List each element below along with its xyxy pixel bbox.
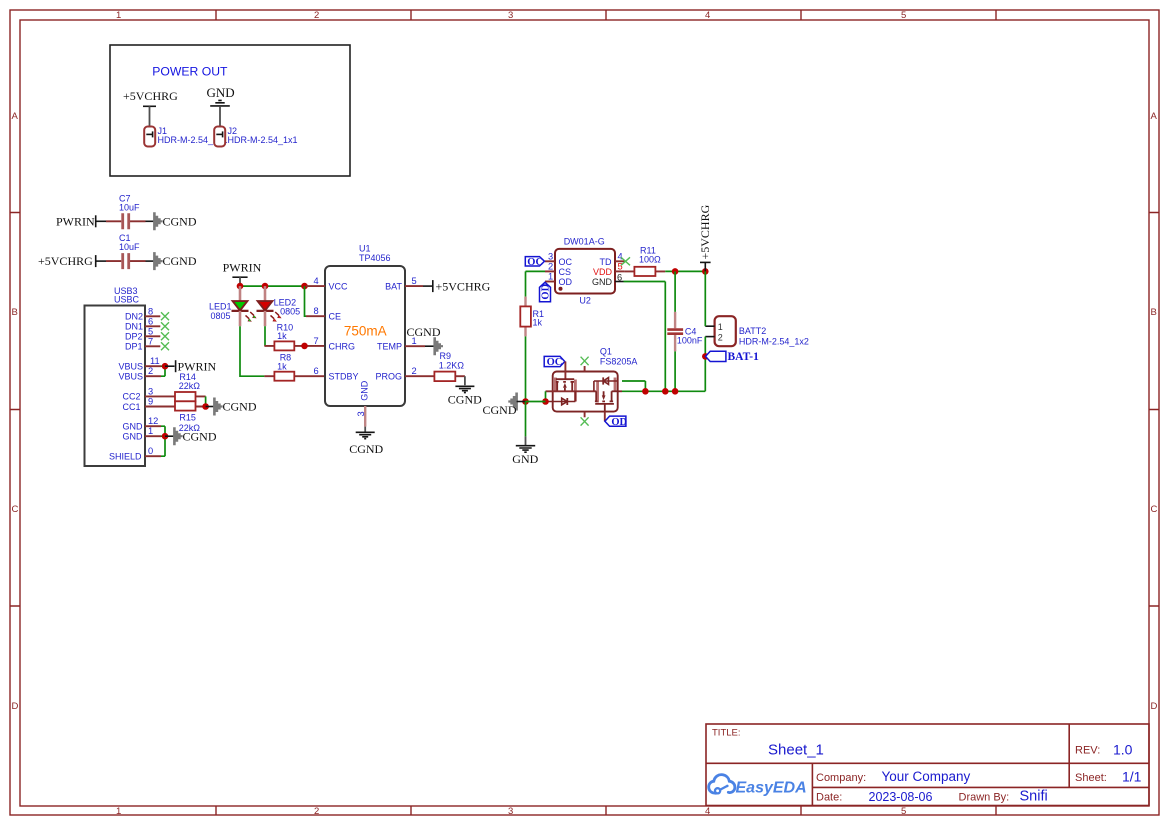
svg-text:0: 0 <box>148 446 153 456</box>
svg-text:USBC: USBC <box>114 295 140 305</box>
svg-text:1: 1 <box>116 806 121 817</box>
capacitor C4 100nF <box>667 271 703 391</box>
svg-text:6: 6 <box>617 272 622 282</box>
pin VBUS (11) <box>119 356 162 371</box>
transistor Q1 FS8205A <box>553 347 638 412</box>
svg-text:C: C <box>1151 504 1158 515</box>
svg-text:3: 3 <box>508 10 513 21</box>
svg-text:R15: R15 <box>179 412 196 422</box>
connector USB3 USBC <box>85 286 146 466</box>
pin CE (8) <box>306 306 325 316</box>
power flag +5VCHRG (BAT) <box>433 280 491 294</box>
pin VDD (5) <box>615 262 624 272</box>
svg-text:EasyEDA: EasyEDA <box>736 780 807 797</box>
wire CE branch <box>305 286 307 316</box>
junction <box>672 388 679 395</box>
ground flag CGND (C7) <box>154 212 196 230</box>
wire <box>146 260 155 262</box>
svg-text:REV:: REV: <box>1075 745 1100 757</box>
Q1 right MOSFET arrow <box>602 395 606 400</box>
svg-text:BAT: BAT <box>385 281 402 291</box>
svg-text:A: A <box>12 111 19 122</box>
svg-text:CGND: CGND <box>483 403 517 417</box>
no-connect X (DP1) <box>161 342 169 350</box>
svg-text:5: 5 <box>901 806 906 817</box>
svg-text:0805: 0805 <box>280 306 300 316</box>
pin top X (Q1) <box>584 366 586 372</box>
svg-text:OC: OC <box>527 257 543 268</box>
no-connect X (Q1 top) <box>581 357 589 366</box>
svg-text:100Ω: 100Ω <box>639 254 661 264</box>
capacitor C7 10uF <box>106 193 146 229</box>
svg-text:A: A <box>1151 111 1158 122</box>
LED LED2 0805 (red) <box>257 286 301 326</box>
svg-text:4: 4 <box>705 10 710 21</box>
svg-text:GND: GND <box>123 422 144 432</box>
ground flag CGND (C1) <box>154 252 196 270</box>
no-connect X (Q1 bottom) <box>581 417 589 425</box>
pin VBUS (2) <box>119 366 162 381</box>
svg-text:6: 6 <box>314 366 319 376</box>
svg-text:3: 3 <box>148 386 153 396</box>
pin DN2 (8) <box>125 306 160 321</box>
svg-text:Drawn By:: Drawn By: <box>959 792 1010 804</box>
resistor R9 1.2KΩ <box>434 351 465 381</box>
resistor R14 22kΩ <box>165 372 206 401</box>
svg-text:VDD: VDD <box>593 267 613 277</box>
junction <box>237 283 244 290</box>
wire <box>161 366 165 376</box>
power flag +5VCHRG (C1 row) <box>38 254 96 268</box>
svg-text:C: C <box>12 504 19 515</box>
svg-text:CC2: CC2 <box>123 392 141 402</box>
svg-text:TP4056: TP4056 <box>359 253 391 263</box>
power flag PWRIN (above LED1) <box>223 261 262 286</box>
net flag BAT-1 <box>706 351 760 363</box>
Q1 right MOSFET internals <box>595 391 622 411</box>
svg-text:PROG: PROG <box>375 372 402 382</box>
ground earth CGND (U1) <box>349 432 383 456</box>
svg-text:1.2KΩ: 1.2KΩ <box>439 360 465 370</box>
pin DP1 (7) <box>125 336 160 351</box>
svg-text:CGND: CGND <box>349 442 383 456</box>
svg-text:750mA: 750mA <box>344 324 387 339</box>
ground earth CGND (R9) <box>448 386 482 406</box>
svg-text:U1: U1 <box>359 243 371 253</box>
pin OC (3) <box>545 251 555 261</box>
svg-text:5: 5 <box>148 326 153 336</box>
svg-text:2023-08-06: 2023-08-06 <box>869 790 933 804</box>
pin GND (12) <box>123 416 162 431</box>
pin CC1 (9) <box>123 397 166 412</box>
svg-text:8: 8 <box>148 306 153 316</box>
wire +5VCHRG down to BATT2 pin1 <box>704 271 706 326</box>
svg-text:5: 5 <box>901 10 906 21</box>
wire net +5VCHRG <box>665 270 705 272</box>
svg-text:D: D <box>12 701 19 712</box>
wire <box>425 345 434 347</box>
svg-text:GND: GND <box>123 432 144 442</box>
wire <box>165 435 174 437</box>
svg-text:DN2: DN2 <box>125 312 143 322</box>
pin GND (3) of U1 <box>356 406 366 427</box>
svg-text:9: 9 <box>148 397 153 407</box>
svg-text:TITLE:: TITLE: <box>712 728 741 739</box>
svg-text:FS8205A: FS8205A <box>600 357 638 367</box>
svg-text:+5VCHRG: +5VCHRG <box>436 280 491 294</box>
svg-text:2: 2 <box>718 332 723 342</box>
wire <box>161 426 165 456</box>
svg-text:D: D <box>1151 701 1158 712</box>
svg-text:DW01A-G: DW01A-G <box>564 237 605 247</box>
svg-text:1: 1 <box>116 10 121 21</box>
svg-text:OD: OD <box>611 417 627 428</box>
svg-text:5: 5 <box>618 262 623 272</box>
svg-text:4: 4 <box>618 251 623 261</box>
svg-text:VBUS: VBUS <box>119 372 144 382</box>
svg-text:Company:: Company: <box>816 772 866 784</box>
power flag PWRIN (VBUS) <box>176 359 217 373</box>
pin TEMP (1) <box>405 336 425 346</box>
connector J2 HDR-M-2.54_1x1 <box>214 126 297 147</box>
svg-text:1: 1 <box>148 426 153 436</box>
svg-text:Sheet:: Sheet: <box>1075 772 1107 784</box>
pin CHRG (7) <box>314 336 319 346</box>
svg-text:GND: GND <box>512 452 538 466</box>
title block <box>706 724 1149 806</box>
wire <box>205 396 207 406</box>
wire LED2 cathode to R10 <box>264 326 266 346</box>
svg-text:+5VCHRG: +5VCHRG <box>38 254 93 268</box>
POWER OUT group box <box>110 45 350 176</box>
wire <box>364 427 366 432</box>
junction <box>162 363 169 370</box>
svg-text:22kΩ: 22kΩ <box>179 381 201 391</box>
Q1 left body diode <box>545 391 576 405</box>
svg-text:1: 1 <box>718 322 723 332</box>
svg-text:CS: CS <box>559 267 572 277</box>
svg-text:1.0: 1.0 <box>1113 742 1133 758</box>
wire <box>96 260 106 262</box>
pin DN1 (6) <box>125 316 160 331</box>
svg-text:1k: 1k <box>277 361 287 371</box>
junction <box>522 398 529 405</box>
svg-text:7: 7 <box>314 336 319 346</box>
Q1 internal wire rail <box>546 390 597 392</box>
svg-text:VBUS: VBUS <box>119 362 144 372</box>
svg-text:+5VCHRG: +5VCHRG <box>698 204 712 259</box>
svg-text:5: 5 <box>412 276 417 286</box>
svg-text:CGND: CGND <box>407 325 441 339</box>
connector BATT2 HDR-M-2.54_1x2 <box>715 316 809 346</box>
wire <box>96 220 106 222</box>
svg-text:OD: OD <box>541 283 552 299</box>
junction <box>301 343 308 350</box>
svg-text:4: 4 <box>705 806 710 817</box>
pin PROG (2) <box>405 366 434 376</box>
op-amp U1 TP4056 <box>325 243 405 406</box>
svg-text:3: 3 <box>548 251 553 261</box>
ground flag CGND (Q1) <box>483 393 526 417</box>
svg-text:GND: GND <box>207 85 235 100</box>
svg-text:VCC: VCC <box>329 281 349 291</box>
svg-text:TEMP: TEMP <box>377 342 402 352</box>
svg-text:BAT-1: BAT-1 <box>728 351 760 363</box>
svg-text:PWRIN: PWRIN <box>56 214 95 228</box>
LED LED1 0805 (green) <box>209 286 257 326</box>
pin GND (1) <box>123 426 162 441</box>
pin BAT (5) <box>405 276 423 286</box>
wire <box>525 336 527 401</box>
power flag PWRIN (C7 row) <box>56 214 96 228</box>
resistor R11 100Ω <box>624 246 665 276</box>
svg-text:CGND: CGND <box>163 254 197 268</box>
svg-text:CC1: CC1 <box>123 402 141 412</box>
svg-text:+5VCHRG: +5VCHRG <box>123 89 178 103</box>
svg-text:CGND: CGND <box>163 214 197 228</box>
wire <box>206 406 214 408</box>
svg-text:GND: GND <box>592 277 613 287</box>
junction <box>662 388 669 395</box>
pin VCC (4) <box>306 276 325 286</box>
junction <box>301 283 308 290</box>
svg-text:Date:: Date: <box>816 792 842 804</box>
svg-text:Snifi: Snifi <box>1020 789 1048 805</box>
svg-text:1: 1 <box>548 272 553 282</box>
svg-text:R9: R9 <box>440 351 452 361</box>
svg-text:1k: 1k <box>277 331 287 341</box>
no-connect X (DP2) <box>161 332 169 340</box>
svg-text:SHIELD: SHIELD <box>109 452 142 462</box>
wire CS net <box>526 271 546 296</box>
junction <box>162 433 169 440</box>
capacitor C1 10uF <box>106 233 146 269</box>
pin SHIELD (0) <box>109 446 161 461</box>
wire net PWRIN to VCC <box>240 285 306 287</box>
ground GND (J2) <box>207 85 235 126</box>
svg-text:2: 2 <box>412 366 417 376</box>
wire LED1 cathode to R8 <box>240 326 264 376</box>
junction <box>262 283 269 290</box>
wire to GND earth <box>525 402 527 437</box>
svg-text:10uF: 10uF <box>119 242 140 252</box>
svg-text:2: 2 <box>148 366 153 376</box>
svg-text:CGND: CGND <box>223 400 257 414</box>
svg-text:1k: 1k <box>533 318 543 328</box>
net flag OD (U2) <box>540 282 552 301</box>
wire Q1 right to battery minus <box>622 381 705 391</box>
ground flag CGND (CC1) <box>214 398 256 416</box>
svg-text:3: 3 <box>356 411 366 416</box>
svg-text:DP2: DP2 <box>125 332 143 342</box>
svg-text:PWRIN: PWRIN <box>223 261 262 275</box>
svg-text:3: 3 <box>508 806 513 817</box>
resistor R1 1k <box>520 297 544 337</box>
pin DP2 (5) <box>125 326 160 341</box>
svg-text:OC: OC <box>547 357 563 368</box>
wire <box>146 220 155 222</box>
ground earth GND <box>512 446 538 466</box>
no-connect X (TD) <box>621 257 630 265</box>
svg-text:0805: 0805 <box>211 311 231 321</box>
wire <box>423 285 433 287</box>
junction <box>702 268 709 275</box>
svg-text:2: 2 <box>314 10 319 21</box>
resistor R15 22kΩ <box>165 401 206 433</box>
svg-text:B: B <box>12 307 18 318</box>
svg-text:8: 8 <box>314 306 319 316</box>
net flag OD (Q1) <box>605 416 628 428</box>
svg-text:2: 2 <box>314 806 319 817</box>
junction <box>542 398 549 405</box>
svg-text:100nF: 100nF <box>677 335 703 345</box>
svg-text:POWER OUT: POWER OUT <box>152 65 228 79</box>
svg-text:BATT2: BATT2 <box>739 326 766 336</box>
no-connect X (DN2) <box>161 312 169 320</box>
svg-text:TD: TD <box>600 257 612 267</box>
connector J1 HDR-M-2.54_1x1 <box>144 126 227 147</box>
pin CS (2) <box>545 261 555 271</box>
svg-text:DN1: DN1 <box>125 322 143 332</box>
junction <box>702 353 709 360</box>
Q1 right body diode <box>594 377 618 391</box>
svg-text:1/1: 1/1 <box>1122 769 1142 785</box>
Q1 left MOSFET arrow <box>563 383 567 388</box>
Q1 left MOSFET internals <box>556 379 574 391</box>
svg-text:GND: GND <box>359 380 369 401</box>
svg-text:12: 12 <box>148 416 158 426</box>
net flag OC (Q1 gate) <box>544 356 565 368</box>
wire <box>305 345 326 347</box>
wire <box>165 365 175 367</box>
svg-text:CHRG: CHRG <box>329 342 356 352</box>
resistor R10 1k <box>264 322 304 350</box>
junction <box>202 403 209 410</box>
pin gate1 from OC <box>564 362 566 380</box>
wire Q1 left to CGND <box>545 391 547 401</box>
pin TD (4) <box>615 251 625 261</box>
wire <box>464 376 466 385</box>
svg-text:Sheet_1: Sheet_1 <box>768 742 824 759</box>
svg-text:CGND: CGND <box>183 429 217 443</box>
junction <box>672 268 679 275</box>
power flag +5VCHRG (BATT2) <box>698 204 712 271</box>
pin bottom X (Q1) <box>584 412 586 418</box>
svg-text:U2: U2 <box>579 295 591 305</box>
pin STDBY (6) <box>314 366 319 376</box>
svg-text:6: 6 <box>148 316 153 326</box>
junction <box>642 388 649 395</box>
wire <box>525 436 527 445</box>
svg-text:B: B <box>1151 307 1157 318</box>
EasyEDA logo <box>709 775 807 797</box>
resistor R8 1k <box>264 353 325 381</box>
wire BATT2 pin2 to Q1 <box>704 337 706 392</box>
svg-text:7: 7 <box>148 336 153 346</box>
svg-text:CGND: CGND <box>448 392 482 406</box>
pin 1 wire (BATT2) <box>705 325 714 327</box>
svg-text:CE: CE <box>329 312 342 322</box>
svg-text:PWRIN: PWRIN <box>178 359 217 373</box>
svg-text:11: 11 <box>150 356 160 366</box>
IC U2 DW01A-G <box>555 237 615 306</box>
pin OD (Q1) <box>604 412 606 422</box>
svg-text:OD: OD <box>559 277 573 287</box>
svg-text:HDR-M-2.54_1x2: HDR-M-2.54_1x2 <box>739 337 809 347</box>
pin GND (6) <box>615 272 624 282</box>
pin OD (1) <box>545 272 555 282</box>
svg-text:STDBY: STDBY <box>329 372 359 382</box>
svg-text:OC: OC <box>559 257 573 267</box>
svg-text:DP1: DP1 <box>125 342 143 352</box>
net flag OC (U2) <box>525 257 544 268</box>
no-connect X (DN1) <box>161 322 169 330</box>
wire <box>526 401 546 403</box>
pin 2 wire (BATT2) <box>705 336 714 338</box>
ground flag CGND (TEMP) <box>407 325 442 355</box>
wire GND net (U2 pin6) <box>624 282 666 392</box>
svg-text:2: 2 <box>548 261 553 271</box>
power flag +5VCHRG (J1) <box>123 89 178 126</box>
svg-text:10uF: 10uF <box>119 202 140 212</box>
svg-text:4: 4 <box>314 276 319 286</box>
svg-text:Q1: Q1 <box>600 347 612 357</box>
svg-text:HDR-M-2.54_1x1: HDR-M-2.54_1x1 <box>228 135 298 145</box>
pin CC2 (3) <box>123 386 166 401</box>
ground flag CGND (USB GND) <box>174 427 216 445</box>
svg-text:Your Company: Your Company <box>882 769 971 784</box>
